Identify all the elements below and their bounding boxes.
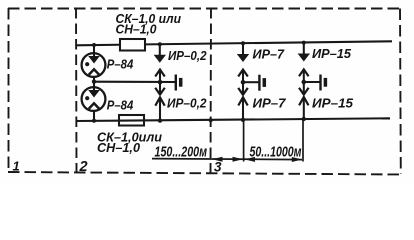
loudspeaker P-84 #1 [82, 53, 106, 77]
wire top feeder bus [76, 41, 392, 45]
border frame [8, 8, 401, 175]
branch double arrow at tap 1 [155, 70, 165, 95]
branch double arrow at tap 3 [299, 69, 309, 94]
loudspeaker P-84 #2 [82, 87, 106, 111]
node junction bottom bus / P-84 riser [92, 119, 96, 123]
svg-text:ИР–0,2: ИР–0,2 [168, 49, 207, 63]
node junction of P-84 link and tap line [92, 79, 96, 83]
svg-text:ИР–7: ИР–7 [253, 47, 286, 61]
svg-text:3: 3 [214, 160, 222, 175]
dimension extension line at tap 2 [243, 120, 245, 162]
subscriber socket at tap 1 [176, 75, 181, 91]
wire link between P-84 #1 and P-84 #2 [93, 77, 95, 87]
zone divider between zone 2 and zone 3 [210, 8, 213, 173]
subscriber socket at tap 2 [259, 75, 264, 91]
branch double arrow at tap 2 [238, 70, 248, 95]
wire bottom feeder bus [76, 118, 390, 121]
svg-text:2: 2 [79, 159, 88, 175]
svg-text:Р–84: Р–84 [107, 58, 134, 72]
dimension line 50...1000m arrows [245, 157, 303, 162]
node junction bottom bus / divider [209, 118, 213, 122]
tap arrow ИР-15 down from top bus [298, 41, 310, 62]
zone divider between zone 1 and zone 2 [75, 8, 78, 172]
tap arrow ИР-15 up from bottom bus [299, 97, 308, 121]
svg-text:ИР–15: ИР–15 [312, 96, 354, 110]
dimension line 150...200m with arrows [152, 157, 302, 162]
wire stub tap 2 to socket [243, 81, 259, 83]
svg-text:Р–84: Р–84 [107, 99, 134, 113]
wire riser from top bus to loudspeaker P-84 #1 [93, 45, 95, 54]
tap arrow ИР-7 up from bottom bus [238, 97, 247, 122]
svg-text:СН–1,0: СН–1,0 [97, 140, 141, 155]
svg-text:ИР–7: ИР–7 [253, 97, 287, 111]
tap arrow ИР-0,2 down from top bus [154, 42, 166, 63]
svg-text:ИР–15: ИР–15 [312, 47, 352, 61]
svg-text:50...1000м: 50...1000м [250, 144, 302, 160]
wire tap line from P-84 junction to subscriber socket [94, 81, 175, 83]
svg-text:1: 1 [13, 159, 20, 174]
box CK-1,0 on top bus [120, 39, 145, 51]
svg-text:ИР–0,2: ИР–0,2 [167, 97, 207, 111]
box CK-1,0 on bottom bus [119, 115, 144, 126]
tap arrow ИР-0,2 up from bottom bus [155, 97, 164, 122]
svg-text:150...200м: 150...200м [155, 145, 208, 161]
node junction top bus / P-84 riser [92, 43, 96, 47]
dimension extension line at tap 3 [302, 119, 304, 162]
tap arrow ИР-7 down from top bus [237, 41, 249, 62]
subscriber socket at tap 3 [321, 75, 326, 91]
wire stub tap 3 to socket [304, 81, 320, 83]
svg-text:СН–1,0: СН–1,0 [116, 22, 158, 37]
wire riser from P-84 #2 to bottom bus [93, 111, 95, 121]
